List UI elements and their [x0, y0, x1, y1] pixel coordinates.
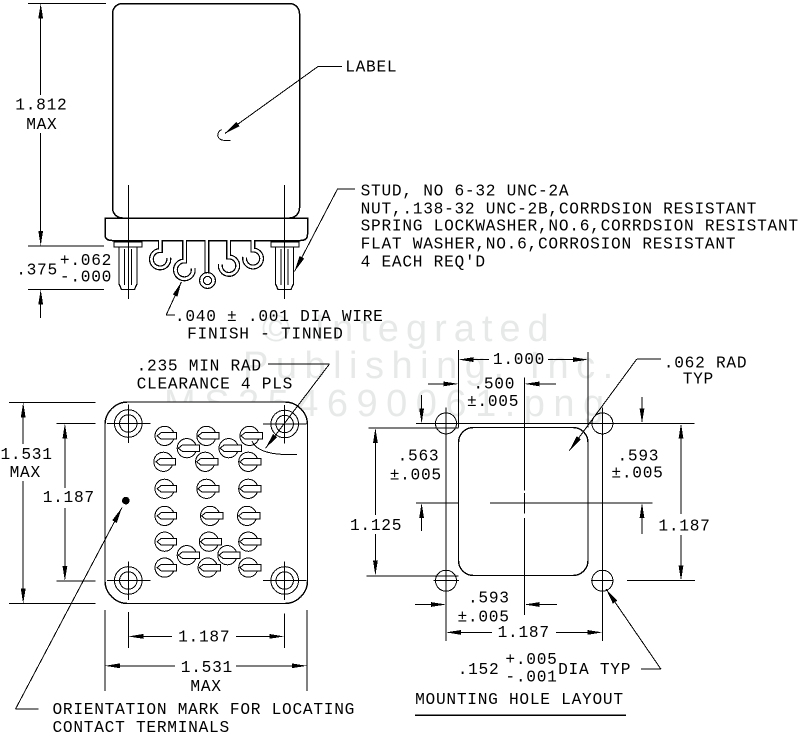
svg-text:1.531: 1.531 — [1, 446, 53, 464]
right stud thread line b — [287, 249, 289, 285]
hole centerline bottom horizontal — [434, 580, 459, 582]
relay body (side view) — [113, 4, 300, 219]
extension line flange bottom — [28, 245, 104, 247]
extension line bl hole down — [127, 612, 129, 648]
dim .563 upper arrow — [421, 395, 423, 409]
left stud centerline — [128, 185, 130, 299]
contact terminal 10 — [197, 479, 216, 498]
center vertical line — [524, 378, 526, 491]
svg-text:NUT,.138-32 UNC-2B,CORRDSION R: NUT,.138-32 UNC-2B,CORRDSION RESISTANT — [361, 200, 757, 218]
svg-text:1.000: 1.000 — [493, 351, 545, 369]
contact terminal 18 — [177, 546, 196, 565]
svg-text:-.000: -.000 — [60, 268, 112, 286]
svg-text:.040 ± .001 DIA WIRE: .040 ± .001 DIA WIRE — [175, 308, 384, 326]
mounting hole top-right (bottom view) — [271, 410, 299, 438]
svg-text:.500: .500 — [473, 375, 515, 393]
title underline — [415, 714, 626, 716]
svg-text:MAX: MAX — [190, 678, 221, 696]
contact terminal 20 — [155, 558, 174, 577]
svg-text:STUD, NO 6-32 UNC-2A: STUD, NO 6-32 UNC-2A — [361, 183, 570, 201]
dim .563 lower arrow — [419, 503, 424, 518]
LABEL leader tip squiggle — [218, 130, 231, 141]
svg-text:+.005: +.005 — [505, 651, 557, 669]
mounting hole top-left (bottom view) — [115, 410, 143, 438]
wire hook terminal 2 — [175, 240, 193, 279]
svg-text:MOUNTING HOLE LAYOUT: MOUNTING HOLE LAYOUT — [415, 691, 624, 709]
dim 1.531 left lower — [22, 481, 24, 590]
stud note leader — [338, 188, 356, 190]
svg-text:±.005: ±.005 — [467, 393, 519, 411]
contact terminal 16 — [199, 532, 218, 551]
dim 1.125 lower — [374, 534, 376, 561]
left stud thread line a — [124, 249, 126, 285]
wire hook terminal 1 — [151, 240, 168, 268]
left stud thread line b — [131, 249, 133, 285]
dim 1.187 bottom — [128, 634, 143, 639]
svg-text:1.187: 1.187 — [178, 629, 230, 647]
svg-text:Publishing, Inc.: Publishing, Inc. — [243, 345, 621, 387]
dim .500 left arrow — [428, 383, 444, 385]
dim 1.187 right upper — [679, 423, 684, 438]
contact terminal 6 — [154, 452, 173, 471]
dim 1.812 arrow down — [40, 133, 42, 231]
right stud thread line a — [280, 249, 282, 285]
right stud centerline — [284, 185, 286, 299]
contact terminal 11 — [239, 479, 258, 498]
layout hole top-right — [592, 413, 613, 434]
wire note leader — [166, 314, 175, 316]
mounting hole bottom-left (bottom view) — [115, 567, 143, 595]
contact terminal 2 — [197, 426, 216, 445]
contact terminal 22 — [239, 558, 258, 577]
svg-text:1.187: 1.187 — [498, 624, 550, 642]
svg-text:-.001: -.001 — [505, 669, 557, 687]
rad clearance leader — [268, 363, 330, 365]
square top extension left — [369, 427, 459, 429]
contact terminal 15 — [155, 532, 174, 551]
svg-text:SPRING LOCKWASHER,NO.6,CORRDSI: SPRING LOCKWASHER,NO.6,CORRDSION RESISTA… — [361, 218, 799, 236]
center horizontal line — [416, 502, 459, 504]
extension line br hole down — [283, 614, 285, 648]
square right extension up — [587, 352, 589, 428]
dim .593 bottom left arrow — [415, 604, 431, 606]
svg-text:.593: .593 — [618, 448, 660, 466]
svg-text:TYP: TYP — [683, 371, 714, 389]
svg-text:+.062: +.062 — [60, 252, 112, 270]
contact terminal 19 — [218, 546, 237, 565]
layout hole bottom-left — [436, 570, 457, 591]
hole centerline right vertical — [601, 408, 603, 642]
extension line hole top left — [56, 423, 95, 425]
svg-text:1.187: 1.187 — [43, 489, 95, 507]
dim 1.812 arrow up — [38, 4, 43, 19]
rad typ leader — [637, 358, 661, 360]
hole centerline left vertical — [445, 408, 447, 642]
rad clearance arc — [252, 441, 297, 455]
layout hole bottom-right — [592, 570, 613, 591]
extension line stud bottom — [28, 288, 104, 290]
hole centerline top horizontal — [416, 422, 695, 424]
wire hook terminal 3 stem — [204, 240, 209, 273]
relay flange bottom view — [105, 402, 308, 604]
extension line flange top left — [9, 402, 96, 404]
dim 1.531 bottom — [105, 663, 120, 668]
svg-text:.152: .152 — [458, 661, 500, 679]
right stud washer — [271, 242, 299, 247]
orientation mark — [122, 497, 130, 505]
dim 1.187 right lower — [680, 535, 682, 567]
contact terminal 17 — [239, 532, 258, 551]
dia typ leader — [641, 668, 661, 670]
svg-text:.375: .375 — [16, 262, 58, 280]
dim 1.125 upper — [373, 428, 378, 443]
dim 1.187 left upper — [63, 424, 68, 439]
contact terminal 12 — [155, 506, 174, 525]
extension line body top — [28, 3, 106, 5]
contact terminal 3 — [240, 426, 259, 445]
svg-text:4 EACH REQ'D: 4 EACH REQ'D — [361, 253, 486, 271]
svg-text:±.005: ±.005 — [611, 465, 663, 483]
wire hook terminal 4 — [220, 240, 237, 274]
LABEL leader — [318, 66, 342, 68]
svg-text:1.187: 1.187 — [658, 518, 710, 536]
mounting cutout square — [459, 428, 589, 576]
wire hook terminal 5 — [245, 240, 262, 267]
left stud washer — [114, 242, 142, 247]
contact terminal 9 — [155, 479, 174, 498]
svg-text:.563: .563 — [398, 448, 440, 466]
wire hook terminal 3 loop — [202, 275, 214, 287]
dim 1.187 layout bottom — [446, 630, 461, 635]
svg-text:DIA TYP: DIA TYP — [558, 661, 631, 679]
extension line flange left down — [104, 610, 106, 691]
svg-text:.235 MIN RAD: .235 MIN RAD — [137, 358, 262, 376]
svg-text:.593: .593 — [468, 590, 510, 608]
mounting hole bottom-right (bottom view) — [271, 567, 299, 595]
dim .500 right arrow — [525, 382, 540, 387]
dim 1.531 left upper — [21, 403, 26, 418]
svg-text:LABEL: LABEL — [345, 59, 397, 77]
dim 1.187 left lower — [64, 508, 66, 567]
svg-text:1.125: 1.125 — [350, 517, 402, 535]
svg-text:ORIENTATION MARK FOR LOCATING: ORIENTATION MARK FOR LOCATING — [53, 701, 356, 719]
svg-text:1.531: 1.531 — [181, 659, 233, 677]
svg-text:±.005: ±.005 — [390, 467, 442, 485]
extension line flange right down — [306, 610, 308, 691]
dim .593 upper arrow — [641, 397, 643, 409]
svg-text:FINISH - TINNED: FINISH - TINNED — [187, 326, 344, 344]
right stud body — [276, 247, 294, 289]
dim .593 bottom right arrow — [525, 602, 540, 607]
contact terminal 1 — [155, 426, 174, 445]
extension line flange bottom left — [9, 603, 96, 605]
svg-text:MAX: MAX — [10, 464, 41, 482]
svg-text:1.812: 1.812 — [15, 97, 67, 115]
contact terminal 5 — [219, 439, 238, 458]
extension line hole bottom left — [56, 580, 95, 582]
left stud body — [119, 247, 137, 289]
square bottom extension left — [367, 575, 459, 577]
svg-text:CONTACT TERMINALS: CONTACT TERMINALS — [53, 719, 230, 732]
square left extension up — [458, 350, 460, 428]
svg-text:FLAT WASHER,NO.6,CORROSION RES: FLAT WASHER,NO.6,CORROSION RESISTANT — [361, 236, 737, 254]
dim 1.000 — [459, 357, 474, 362]
contact terminal 7 — [196, 452, 215, 471]
layout hole top-left — [436, 413, 457, 434]
orientation leader — [15, 708, 38, 710]
contact terminal 8 — [239, 452, 258, 471]
dim .375 lower arrow — [38, 289, 43, 304]
contact terminal 4 — [177, 439, 196, 458]
relay mounting flange (side view) — [105, 218, 308, 241]
svg-text:CLEARANCE 4 PLS: CLEARANCE 4 PLS — [137, 375, 294, 393]
contact terminal 14 — [237, 506, 256, 525]
contact terminal 13 — [201, 506, 220, 525]
dim .593 lower arrow — [640, 503, 645, 518]
svg-text:MAX: MAX — [26, 116, 57, 134]
contact terminal 21 — [198, 558, 217, 577]
